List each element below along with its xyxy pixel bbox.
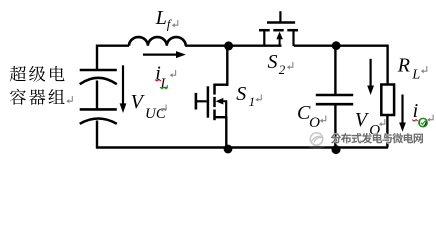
resistor RL bottom lead: [386, 115, 388, 148]
node: junction dot (inductor/S1/S2): [224, 41, 233, 50]
svg-text:L: L: [160, 77, 169, 92]
arrow: io output current (down): [399, 95, 406, 132]
arrow: VUC voltage (down): [120, 65, 127, 113]
capacitor: supercap C1 curved plate: [80, 78, 117, 84]
transistor S2 channel segment right: [287, 29, 298, 32]
spellcheck green squiggle under iL subscript: [160, 87, 168, 88]
svg-text:UC: UC: [145, 106, 167, 122]
capacitor: supercap C2 flat plate: [80, 108, 117, 111]
svg-text:L: L: [155, 7, 167, 29]
svg-text:S: S: [268, 51, 278, 73]
paragraph mark after io: [427, 115, 433, 122]
capacitor Co top plate: [316, 94, 353, 97]
transistor S1 source bar: [214, 116, 227, 118]
wire: supercap top lead: [96, 45, 98, 71]
watermark logo: [309, 133, 325, 148]
transistor S1 drain wire: [226, 46, 228, 86]
capacitor: supercap C2 curved plate: [80, 119, 117, 124]
paragraph mark after RL: [421, 66, 427, 73]
inductor Lf: [129, 37, 186, 46]
grammar check green circle on io subscript: [419, 118, 427, 126]
node: junction dot (bottom of S1): [224, 145, 233, 154]
transistor S2 channel segment middle: [273, 29, 283, 32]
watermark text 分布式发电与微电网: [331, 133, 423, 143]
wire: top-left horizontal (supercap to inductor): [97, 45, 129, 47]
svg-text:L: L: [411, 68, 420, 83]
paragraph mark after iL: [170, 70, 176, 77]
arrow: iL inductor current (right): [143, 51, 186, 58]
svg-text:R: R: [397, 55, 410, 77]
capacitor: supercap C1 flat plate: [80, 69, 117, 72]
wire: bottom rail: [97, 146, 388, 148]
transistor S2 source stub: [292, 31, 294, 46]
paragraph mark after Lf: [172, 20, 178, 27]
transistor S2 gate terminal stem: [279, 11, 281, 22]
transistor S1 body-source link: [225, 101, 227, 117]
label: supercapacitor bank (超级电容器组): [10, 66, 65, 105]
transistor S1 gate plate: [207, 86, 210, 117]
arrow: Vo output voltage (down): [367, 59, 374, 95]
svg-text:1: 1: [249, 94, 256, 109]
transistor S2 gate plate: [267, 21, 295, 24]
transistor S1 body arrow (points left): [216, 98, 228, 105]
transistor S1 channel segment bottom: [213, 110, 216, 121]
transistor S1 channel segment middle: [213, 97, 216, 107]
wire: supercap bottom lead to bottom rail: [96, 121, 98, 149]
transistor S1 source wire: [225, 117, 227, 148]
paragraph mark after S2: [287, 62, 293, 69]
transistor S2 body arrow (points up): [276, 32, 283, 46]
capacitor Co top lead: [334, 46, 336, 94]
node: junction dot (top of Co): [332, 41, 341, 50]
transistor S1 drain bar: [214, 83, 229, 85]
resistor RL body: [381, 85, 394, 116]
transistor S2 drain stub: [263, 31, 265, 46]
svg-text:O: O: [309, 115, 320, 131]
node: junction dot (bottom of Co): [332, 145, 341, 154]
transistor S1 gate terminal bar: [195, 93, 198, 110]
paragraph mark after Co: [320, 116, 326, 123]
paragraph mark after Vo: [379, 119, 385, 126]
capacitor Co bottom plate: [316, 103, 353, 106]
capacitor Co bottom lead: [334, 105, 336, 150]
svg-text:S: S: [236, 83, 246, 105]
spellcheck red squiggle under iL: [155, 80, 161, 81]
wire: inductor to node A: [185, 45, 281, 47]
svg-text:2: 2: [279, 62, 286, 77]
wire: link between supercap C1 and C2: [96, 81, 98, 110]
transistor S2 channel segment left: [259, 29, 270, 32]
paragraph mark after S1: [255, 95, 261, 102]
paragraph mark after 容器组: [66, 96, 72, 103]
transistor S1 gate lead: [196, 100, 207, 102]
wire: S2 source to top-right corner, down to RL: [294, 46, 388, 85]
spellcheck red mark under io: [412, 120, 418, 122]
transistor S1 channel segment top: [213, 84, 216, 95]
paragraph mark after VUC: [160, 105, 166, 112]
